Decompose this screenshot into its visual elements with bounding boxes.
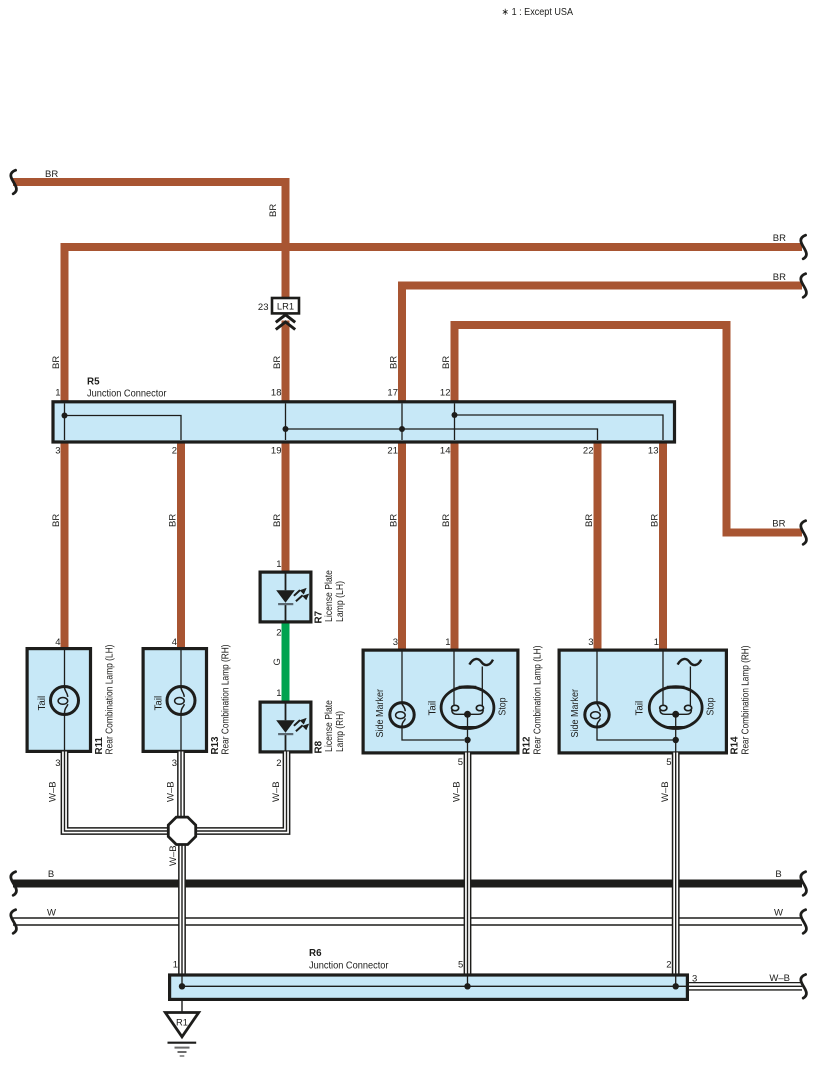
svg-text:17: 17 [387, 388, 398, 399]
svg-text:22: 22 [583, 446, 594, 457]
R5 junction node pin1/2/3 [62, 413, 68, 419]
svg-text:Side Marker: Side Marker [375, 688, 386, 737]
svg-text:3: 3 [55, 758, 60, 769]
svg-text:BR: BR [650, 514, 661, 527]
svg-text:Tail: Tail [37, 696, 48, 711]
wire BR from R5 pin 1 up and right to right edge [65, 247, 803, 404]
R14 side marker bulb [585, 703, 609, 727]
R12 tail/stop bulb [441, 687, 494, 729]
R12 tail lead [453, 652, 455, 706]
svg-text:13: 13 [648, 446, 659, 457]
R14 tail/stop bulb [649, 687, 702, 729]
ground splice octagon [168, 817, 195, 844]
R5 junction node pin18/19 [283, 426, 289, 432]
svg-text:B: B [775, 869, 781, 880]
ground triangle R1 [165, 1013, 198, 1037]
wire BR R5 pin 21 to R12 pin 3 [398, 440, 406, 650]
svg-text:Tail: Tail [635, 701, 646, 716]
svg-text:Side Marker: Side Marker [570, 688, 581, 737]
wire BR R5 pin 14 to R12 pin 1 [451, 440, 459, 650]
R6 internal bus [182, 976, 688, 986]
svg-text:W–B: W–B [452, 781, 463, 802]
svg-text:1: 1 [173, 960, 178, 971]
svg-text:1: 1 [55, 388, 60, 399]
svg-text:Rear Combination Lamp (RH): Rear Combination Lamp (RH) [741, 646, 752, 755]
R8 LED triangle [276, 720, 295, 733]
svg-text:Junction Connector: Junction Connector [309, 961, 389, 972]
svg-text:3: 3 [172, 758, 177, 769]
svg-text:4: 4 [172, 637, 177, 648]
wire W bus [13, 917, 802, 926]
svg-text:3: 3 [692, 974, 697, 985]
svg-text:BR: BR [584, 514, 595, 527]
R8 LED light arrows [294, 718, 309, 731]
svg-text:BR: BR [773, 272, 786, 283]
ground hatch [168, 1043, 197, 1056]
R8 box R8 License Plate Lamp (RH) [260, 702, 311, 752]
svg-text:BR: BR [272, 356, 283, 369]
junction connector R6 box [170, 975, 688, 999]
R6 node pin 2 [673, 983, 679, 989]
wire W-B from R13 pin 3 to ground octagon [177, 752, 185, 819]
R14 tail/stop bulb centre junction [672, 711, 679, 718]
wire BR from R5 pin 17 up and right to right edge [402, 286, 802, 405]
svg-text:18: 18 [271, 388, 282, 399]
svg-text:Tail: Tail [154, 696, 165, 711]
svg-text:BR: BR [272, 514, 283, 527]
R5 internal bus pin18-pin19 [286, 404, 598, 441]
R12 stop lead to flasher squiggle [481, 667, 483, 706]
svg-text:BR: BR [268, 204, 279, 217]
svg-text:4: 4 [55, 637, 60, 648]
R11 internal lead [64, 650, 66, 750]
R14 side marker lead [597, 652, 673, 741]
R5 internal bus pin12-pin14 with branch to pin13 [455, 404, 664, 441]
svg-text:R11: R11 [94, 737, 105, 755]
wire W-B from R12 pin 5 to R6 pin 5 [464, 753, 472, 975]
svg-text:License Plate: License Plate [324, 700, 335, 752]
wire BR R5 pin 2 to R13 pin 4 [177, 440, 185, 650]
R8 LED cathode bar [278, 733, 293, 735]
R5 junction node pin12/13/14 [452, 412, 458, 418]
svg-text:1: 1 [445, 637, 450, 648]
R5 junction node pin17/21/22 [399, 426, 405, 432]
svg-text:1: 1 [654, 637, 659, 648]
wire W-B from octagon to R6 pin 1 [178, 844, 186, 974]
R14 tail lead [662, 652, 664, 706]
svg-text:BR: BR [441, 514, 452, 527]
svg-text:Rear Combination Lamp (LH): Rear Combination Lamp (LH) [105, 645, 116, 755]
svg-text:Rear Combination Lamp (RH): Rear Combination Lamp (RH) [221, 645, 232, 755]
LR1 double chevron [276, 315, 295, 330]
R11 Rear Combination Lamp (LH) box [27, 649, 90, 752]
wire BR from left edge to LR1 (vertical at x285.5) [13, 182, 286, 298]
R12 tail/stop bulb centre junction [464, 711, 471, 718]
R7 LED triangle [276, 590, 295, 603]
wire W-B from R14 pin 5 to R6 pin 2 [672, 753, 680, 975]
wire W-B from R11 pin 3 to ground octagon [65, 752, 170, 832]
R12 side marker lead [402, 652, 464, 741]
svg-text:LR1: LR1 [277, 300, 294, 311]
svg-text:License Plate: License Plate [324, 570, 335, 622]
svg-text:BR: BR [389, 356, 400, 369]
R5 internal bus pin1-pin3 with branch to pin2 [65, 404, 182, 441]
svg-text:BR: BR [441, 356, 452, 369]
R13 internal lead [180, 650, 182, 750]
wire BR R5 pin 22 to R14 pin 3 [594, 440, 602, 650]
R12 side marker bulb [390, 703, 414, 727]
svg-text:W: W [47, 908, 56, 919]
svg-text:Rear Combination Lamp (LH): Rear Combination Lamp (LH) [533, 646, 544, 755]
wire W-B from R6 pin 3 to right edge [689, 982, 802, 991]
connector LR1 box [272, 298, 299, 313]
svg-text:∗ 1 : Except USA: ∗ 1 : Except USA [502, 7, 574, 18]
svg-text:R1: R1 [176, 1017, 188, 1028]
svg-text:19: 19 [271, 446, 282, 457]
svg-text:5: 5 [458, 757, 463, 768]
svg-text:3: 3 [588, 637, 593, 648]
svg-text:12: 12 [440, 388, 451, 399]
R14 stop lead to flasher squiggle [689, 667, 691, 706]
continuation squiggle right, B wire [801, 872, 807, 896]
wire B ground bus [13, 880, 802, 888]
continuation squiggle right, BR wire y247 [801, 235, 807, 259]
svg-text:5: 5 [458, 960, 463, 971]
continuation squiggle left, BR wire y182 [11, 170, 17, 194]
svg-text:BR: BR [51, 514, 62, 527]
svg-text:W–B: W–B [168, 845, 179, 866]
R14 stop filament squiggle [678, 659, 702, 665]
svg-text:2: 2 [276, 758, 281, 769]
svg-text:Stop: Stop [498, 697, 509, 715]
svg-text:2: 2 [172, 446, 177, 457]
svg-text:2: 2 [276, 628, 281, 639]
svg-text:23: 23 [258, 302, 269, 313]
svg-text:BR: BR [389, 514, 400, 527]
R11 tail bulb [51, 687, 79, 715]
svg-text:W: W [774, 908, 783, 919]
svg-text:21: 21 [387, 446, 398, 457]
svg-text:BR: BR [168, 514, 179, 527]
wire BR R5 pin 19 to R7 pin 1 [282, 440, 290, 572]
svg-text:R6: R6 [309, 948, 322, 959]
svg-text:Tail: Tail [428, 701, 439, 716]
continuation squiggle left, B wire [11, 872, 17, 896]
svg-text:R7: R7 [314, 610, 325, 623]
svg-text:1: 1 [276, 688, 281, 699]
svg-text:3: 3 [55, 446, 60, 457]
wire W-B from R8 pin 2 to ground octagon [195, 752, 287, 832]
continuation squiggle right, BR wire y532 [801, 521, 807, 545]
svg-text:Lamp (LH): Lamp (LH) [335, 581, 346, 622]
svg-text:W–B: W–B [166, 781, 177, 802]
svg-text:G: G [272, 658, 283, 665]
svg-text:R5: R5 [87, 377, 100, 388]
R7 LED light arrows [294, 588, 309, 601]
R13 tail bulb [167, 687, 195, 715]
svg-text:R12: R12 [522, 736, 533, 755]
svg-text:Lamp (RH): Lamp (RH) [335, 711, 346, 752]
svg-text:5: 5 [666, 757, 671, 768]
svg-text:3: 3 [393, 637, 398, 648]
continuation squiggle left, W wire [11, 910, 17, 934]
svg-text:Stop: Stop [706, 697, 717, 715]
continuation squiggle right, BR wire y285 [801, 274, 807, 298]
svg-text:BR: BR [773, 233, 786, 244]
R8 internal lead [285, 704, 287, 751]
svg-text:W–B: W–B [769, 973, 790, 984]
svg-text:W–B: W–B [48, 781, 59, 802]
continuation squiggle right, W-B wire [801, 975, 807, 999]
R14 lead bulb to pin 5 [675, 714, 677, 752]
continuation squiggle right, W wire [801, 910, 807, 934]
R7 box R7 License Plate Lamp (LH) [260, 572, 311, 622]
R6 node pin 1 [179, 983, 185, 989]
wire BR R5 pin 13 to R14 pin 1 [659, 440, 667, 650]
wire G from R7 pin 2 to R8 pin 1 [282, 622, 290, 702]
svg-text:R14: R14 [730, 736, 741, 755]
wire BR from R5 pin 12 up, right, down and to right edge [455, 325, 803, 533]
svg-text:Junction Connector: Junction Connector [87, 389, 167, 400]
R12 stop filament squiggle [469, 659, 493, 665]
R6 node pin 5 [464, 983, 470, 989]
svg-text:BR: BR [45, 169, 58, 180]
wire BR R5 pin 3 to R11 pin 4 [61, 440, 69, 650]
R12 lead bulb to pin 5 [467, 714, 469, 752]
R7 internal lead [285, 574, 287, 621]
svg-text:W–B: W–B [660, 781, 671, 802]
svg-text:BR: BR [772, 519, 785, 530]
R14 junction node pin 5 [673, 737, 679, 743]
R13 Rear Combination Lamp (RH) box [143, 649, 206, 752]
svg-text:BR: BR [51, 356, 62, 369]
R12 Rear Combination Lamp (LH) box [363, 650, 518, 753]
junction connector R5 box [53, 402, 675, 442]
svg-text:1: 1 [276, 559, 281, 570]
svg-text:R13: R13 [210, 736, 221, 755]
lead R6 pin 1 to ground R1 [181, 998, 183, 1013]
R5 internal bus pin17-pin21 [401, 404, 403, 441]
svg-text:W–B: W–B [271, 781, 282, 802]
svg-text:2: 2 [666, 960, 671, 971]
svg-text:R8: R8 [314, 740, 325, 753]
R14 Rear Combination Lamp (RH) box [559, 650, 726, 753]
svg-text:B: B [48, 869, 54, 880]
wire BR below LR1 chevrons down to R5 pin 18 [282, 321, 290, 405]
R12 junction node pin 5 [464, 737, 470, 743]
svg-text:14: 14 [440, 446, 451, 457]
R7 LED cathode bar [278, 603, 293, 605]
